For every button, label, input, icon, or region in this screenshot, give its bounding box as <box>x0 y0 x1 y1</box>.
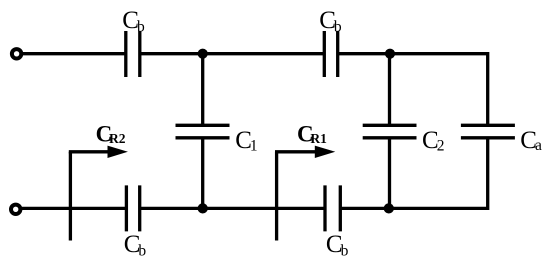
capacitor Cb top-right plates <box>324 31 337 77</box>
arrow CR2 vertical wire <box>69 152 72 241</box>
wire top rail segment 2 <box>140 52 324 55</box>
svg-text:Cb: Cb <box>319 7 342 36</box>
capacitor C2 bottom stub wire <box>388 138 391 209</box>
capacitor Cb bottom-right plates <box>325 185 340 231</box>
svg-text:Cb: Cb <box>122 7 145 36</box>
wire top rail segment 1 <box>17 52 126 55</box>
svg-text:Cb: Cb <box>326 231 349 258</box>
wire bottom rail segment 1 <box>16 207 127 210</box>
svg-text:Ca: Ca <box>520 127 542 154</box>
arrow CR1 horizontal shaft <box>275 150 317 153</box>
wire top rail segment 3 with corner down to Ca <box>338 54 488 126</box>
capacitor C1 plates <box>176 125 230 138</box>
svg-text:CR2: CR2 <box>96 121 126 146</box>
capacitor C2 plates <box>363 125 417 138</box>
node top junction 2 <box>385 49 395 59</box>
capacitor Ca plates <box>461 125 515 138</box>
wire bottom rail segment 3 with corner up to Ca <box>340 138 487 209</box>
node top junction 1 <box>198 49 208 59</box>
arrow CR2 horizontal shaft <box>69 150 110 153</box>
wire bottom rail segment 2 <box>140 207 325 210</box>
capacitor C2 top stub wire <box>388 54 391 126</box>
capacitor C1 top stub wire <box>201 54 204 126</box>
node bottom junction 2 <box>384 203 394 213</box>
capacitor Cb top-left plates <box>126 31 140 77</box>
arrow CR2 head <box>108 146 128 158</box>
capacitor C1 bottom stub wire <box>201 138 204 209</box>
svg-text:CR1: CR1 <box>297 121 327 146</box>
terminal bottom-left input <box>11 205 20 214</box>
terminal top-left input <box>12 49 21 58</box>
node bottom junction 1 <box>198 203 208 213</box>
svg-text:C2: C2 <box>422 127 444 155</box>
arrow CR1 vertical wire <box>275 152 278 241</box>
svg-text:C1: C1 <box>235 127 257 155</box>
arrow CR1 head <box>315 146 336 158</box>
capacitor Cb bottom-left plates <box>126 185 139 231</box>
svg-text:Cb: Cb <box>124 231 147 258</box>
